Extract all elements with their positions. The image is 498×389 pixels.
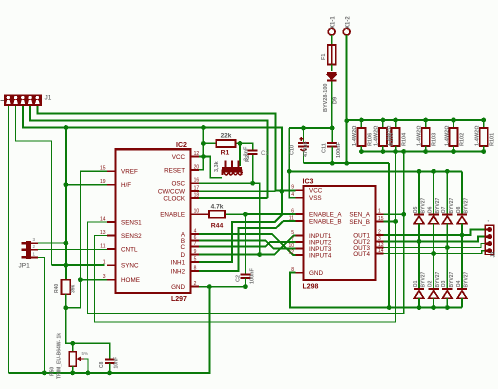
svg-text:D: D <box>181 252 186 259</box>
svg-text:ENABLE: ENABLE <box>160 212 185 219</box>
svg-text:3,3k: 3,3k <box>214 160 220 172</box>
svg-text:VSS: VSS <box>309 195 322 202</box>
svg-text:D9: D9 <box>333 97 339 104</box>
svg-text:3: 3 <box>378 236 381 242</box>
svg-text:10: 10 <box>288 243 294 249</box>
svg-text:SYNC: SYNC <box>121 263 139 270</box>
svg-text:VCC: VCC <box>172 154 186 161</box>
svg-text:D7: D7 <box>441 206 447 213</box>
svg-text:10: 10 <box>194 209 200 215</box>
svg-text:BYV27: BYV27 <box>449 271 455 287</box>
svg-text:2: 2 <box>378 230 381 236</box>
svg-text:R101: R101 <box>490 133 496 146</box>
svg-text:12: 12 <box>288 250 294 256</box>
svg-text:J1: J1 <box>45 95 52 102</box>
svg-text:1-4W2Ω: 1-4W2Ω <box>386 126 392 146</box>
svg-text:R44: R44 <box>211 223 224 230</box>
svg-text:1: 1 <box>378 209 381 215</box>
svg-text:1-4W2Ω: 1-4W2Ω <box>475 126 481 146</box>
svg-text:11: 11 <box>100 244 105 250</box>
svg-text:RESET: RESET <box>164 167 185 174</box>
svg-text:L298: L298 <box>303 284 319 291</box>
svg-text:5%: 5% <box>82 351 89 356</box>
svg-text:OUT4: OUT4 <box>353 251 370 258</box>
svg-text:10nF: 10nF <box>114 357 120 369</box>
svg-text:L297: L297 <box>171 296 187 303</box>
svg-text:OSC: OSC <box>171 181 185 188</box>
svg-text:C8: C8 <box>99 361 105 368</box>
svg-text:BYV27: BYV27 <box>421 197 427 213</box>
svg-text:2: 2 <box>194 281 197 287</box>
svg-text:GND: GND <box>171 284 185 291</box>
svg-text:R102: R102 <box>460 133 466 146</box>
svg-text:ENABLE_A: ENABLE_A <box>309 211 342 218</box>
svg-text:BYV27: BYV27 <box>421 271 427 287</box>
svg-text:J2: J2 <box>491 251 497 257</box>
svg-text:*: * <box>488 219 490 224</box>
svg-text:TRIM_EU-B64W- 1k: TRIM_EU-B64W- 1k <box>57 333 63 379</box>
svg-text:C1: C1 <box>261 151 269 157</box>
svg-text:1-4W2Ω: 1-4W2Ω <box>374 126 380 146</box>
svg-text:C11: C11 <box>322 143 328 153</box>
svg-text:R1: R1 <box>221 150 230 157</box>
svg-text:39k: 39k <box>71 284 77 293</box>
svg-text:D4: D4 <box>456 280 462 287</box>
svg-text:BYV27: BYV27 <box>464 197 470 213</box>
svg-text:16: 16 <box>194 178 200 184</box>
svg-text:9: 9 <box>194 249 197 255</box>
svg-text:4: 4 <box>194 229 197 235</box>
svg-text:R50: R50 <box>50 367 56 376</box>
svg-text:R106: R106 <box>367 133 373 146</box>
svg-text:12: 12 <box>194 151 200 157</box>
svg-text:C2: C2 <box>236 275 242 282</box>
svg-text:1-4W2Ω: 1-4W2Ω <box>444 126 450 146</box>
svg-text:17: 17 <box>194 186 200 192</box>
svg-text:R40: R40 <box>54 284 60 293</box>
svg-text:JP1: JP1 <box>19 263 31 270</box>
svg-text:ENABLE_B: ENABLE_B <box>309 218 342 225</box>
svg-text:X1-2: X1-2 <box>346 16 352 29</box>
svg-text:7: 7 <box>194 241 197 247</box>
svg-text:R2: R2 <box>245 155 251 162</box>
svg-text:D8: D8 <box>456 206 462 213</box>
svg-text:R103: R103 <box>432 133 438 146</box>
svg-text:IC2: IC2 <box>176 142 187 149</box>
svg-text:SEN_A: SEN_A <box>349 212 370 219</box>
svg-text:H/F: H/F <box>121 182 131 189</box>
svg-text:6: 6 <box>194 235 197 241</box>
svg-text:CLOCK: CLOCK <box>163 195 185 202</box>
svg-text:C10: C10 <box>290 145 296 155</box>
svg-text:D6: D6 <box>427 206 433 213</box>
svg-text:1-4W2Ω: 1-4W2Ω <box>352 126 358 146</box>
svg-text:100nF: 100nF <box>336 141 342 158</box>
svg-text:6: 6 <box>291 208 294 214</box>
svg-text:15: 15 <box>378 216 384 222</box>
svg-text:INPUT4: INPUT4 <box>309 253 332 260</box>
svg-text:R104: R104 <box>402 132 408 146</box>
svg-text:1-4W2Ω: 1-4W2Ω <box>417 126 423 146</box>
svg-text:BYV27: BYV27 <box>449 197 455 213</box>
svg-text:22k: 22k <box>221 133 232 140</box>
svg-text:8: 8 <box>194 266 197 272</box>
svg-text:4.7k: 4.7k <box>211 204 224 211</box>
svg-text:IC3: IC3 <box>303 179 314 186</box>
svg-text:D3: D3 <box>441 280 447 287</box>
svg-text:D2: D2 <box>427 280 433 287</box>
svg-text:SENS1: SENS1 <box>121 220 142 227</box>
svg-text:SENS2: SENS2 <box>121 233 142 240</box>
svg-text:18: 18 <box>194 192 200 198</box>
svg-text:F1: F1 <box>321 54 327 60</box>
svg-text:D5: D5 <box>413 206 419 213</box>
svg-text:470uF: 470uF <box>303 140 309 157</box>
svg-text:100nF: 100nF <box>250 267 256 284</box>
svg-text:INH1: INH1 <box>171 259 186 266</box>
svg-text:20: 20 <box>194 164 200 170</box>
svg-text:14: 14 <box>378 248 384 254</box>
svg-text:X1-1: X1-1 <box>331 16 337 29</box>
svg-text:VREF: VREF <box>121 169 138 176</box>
svg-text:BYV27: BYV27 <box>464 271 470 287</box>
svg-text:7: 7 <box>291 237 294 243</box>
svg-text:HOME: HOME <box>121 277 140 284</box>
svg-text:5: 5 <box>194 256 197 262</box>
svg-text:11: 11 <box>289 215 294 221</box>
svg-text:VCC: VCC <box>309 188 323 195</box>
svg-text:BYV28-100: BYV28-100 <box>323 84 329 112</box>
svg-text:INH2: INH2 <box>171 269 186 276</box>
svg-text:5: 5 <box>291 230 294 236</box>
svg-text:CNTL: CNTL <box>121 247 138 254</box>
svg-text:SEN_B: SEN_B <box>349 219 370 226</box>
svg-text:GND: GND <box>309 270 323 277</box>
svg-text:D1: D1 <box>413 280 419 287</box>
svg-text:C: C <box>181 244 186 251</box>
